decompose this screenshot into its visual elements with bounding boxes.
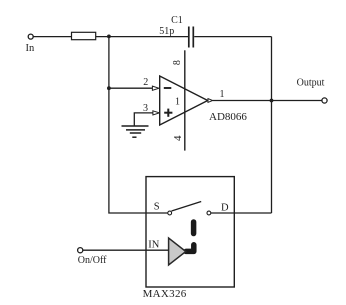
svg-text:1: 1: [175, 96, 180, 107]
svg-text:3: 3: [143, 103, 148, 114]
svg-text:AD8066: AD8066: [209, 111, 247, 123]
output arrow at apex: [208, 99, 213, 103]
resistor R1: [72, 32, 96, 39]
plus sign: [164, 109, 172, 117]
power pin line (8 top, 4 bottom): [184, 50, 186, 150]
control bar (bold): [191, 222, 197, 234]
wire R1 to capacitor: [96, 36, 188, 38]
On/Off terminal: [78, 248, 83, 253]
S contact circle: [168, 211, 172, 215]
output junction dot: [270, 99, 274, 103]
svg-text:1: 1: [220, 89, 225, 100]
wire pin1 to Output: [213, 100, 322, 102]
svg-text:2: 2: [143, 77, 148, 88]
minus sign: [164, 87, 172, 89]
wire to pin 2: [109, 87, 152, 89]
junction dot pin2 branch: [107, 86, 111, 90]
svg-text:S: S: [154, 201, 160, 212]
ground: [122, 113, 153, 137]
svg-text:On/Off: On/Off: [78, 255, 107, 266]
wire On/Off to IN: [83, 249, 169, 251]
output terminal: [322, 98, 327, 103]
svg-text:MAX326: MAX326: [143, 288, 187, 300]
input terminal In: [28, 34, 33, 39]
svg-text:Output: Output: [297, 78, 325, 89]
svg-text:C1: C1: [171, 15, 183, 26]
D contact circle: [207, 211, 211, 215]
svg-text:D: D: [221, 202, 229, 213]
svg-text:8: 8: [172, 60, 183, 65]
wire right vertical: [271, 37, 273, 213]
wire D to right vertical: [211, 212, 272, 214]
pin 2 arrow: [152, 86, 159, 90]
svg-text:51p: 51p: [159, 26, 174, 37]
wire left vertical to S: [109, 37, 168, 213]
switch blade: [172, 202, 202, 212]
svg-text:IN: IN: [148, 239, 159, 250]
svg-text:4: 4: [172, 135, 184, 141]
pin 3 arrow: [153, 111, 160, 115]
op-amp U1 AD8066: [160, 76, 208, 125]
svg-text:In: In: [26, 43, 35, 54]
wire capacitor to top-right corner: [194, 36, 271, 38]
switch block U2 MAX326: [146, 177, 234, 287]
junction node dot: [107, 35, 111, 39]
wire In to R1: [33, 36, 71, 38]
control hook (bold): [186, 245, 194, 252]
capacitor C1: [189, 27, 194, 48]
driver triangle (IN buffer): [169, 238, 186, 265]
